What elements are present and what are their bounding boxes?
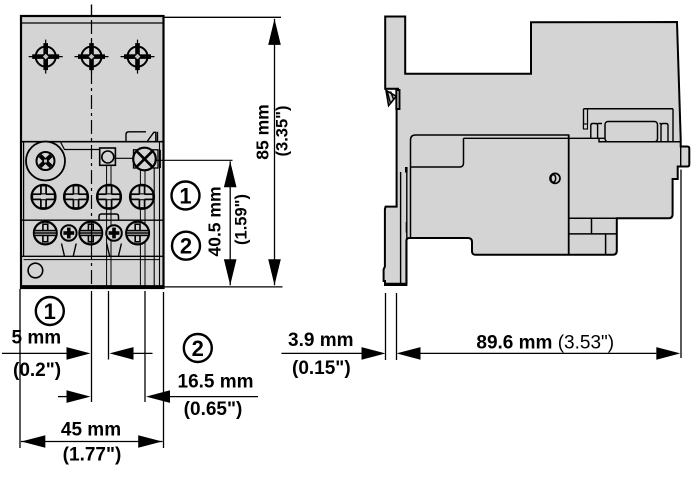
svg-text:(0.65"): (0.65") xyxy=(184,399,243,420)
front body bottom thick edge xyxy=(21,285,164,288)
extension line centerline xyxy=(91,291,93,402)
svg-text:3.9 mm: 3.9 mm xyxy=(288,330,353,351)
terminal screw row xyxy=(34,222,57,245)
svg-text:(0.2"): (0.2") xyxy=(13,360,61,381)
wire funnel 1 xyxy=(62,244,77,257)
din clip hook triangle xyxy=(386,90,396,105)
dial xyxy=(26,142,65,181)
terminal block top line xyxy=(21,219,164,221)
right block bottom seam xyxy=(569,217,617,219)
bottom-left hole xyxy=(28,263,43,278)
protrusion inner line xyxy=(680,147,682,167)
din clip slot bar xyxy=(396,90,399,109)
front block top edge xyxy=(411,135,569,238)
3.9mm dimension line xyxy=(281,352,361,354)
base plate left seam xyxy=(406,167,408,284)
tray right wall xyxy=(672,109,674,142)
svg-text:89.6 mm (3.53"): 89.6 mm (3.53") xyxy=(476,332,614,353)
extension line test button xyxy=(108,291,110,360)
din slider bar right edge xyxy=(400,172,402,283)
89.6mm dimension line xyxy=(421,352,657,354)
inner panel top line xyxy=(61,142,100,150)
circled 1 (right) xyxy=(172,182,200,210)
test-reset link line xyxy=(115,157,133,159)
front block second seam xyxy=(464,137,607,139)
din foot bottom thick edge xyxy=(384,283,406,286)
circled 2 (bottom) xyxy=(184,334,212,362)
svg-text:2: 2 xyxy=(192,336,204,361)
85mm bottom extension line xyxy=(164,286,283,288)
svg-text:1: 1 xyxy=(44,299,56,324)
side view body outline xyxy=(384,17,690,286)
reset button pad xyxy=(134,150,159,168)
svg-text:40.5 mm: 40.5 mm xyxy=(205,186,225,256)
block divider vertical xyxy=(568,135,570,255)
small latch tick xyxy=(406,222,408,233)
extension line reset button xyxy=(144,291,146,402)
svg-text:1: 1 xyxy=(179,183,191,208)
tray left wall xyxy=(583,109,585,129)
front view body xyxy=(21,16,164,288)
svg-text:5 mm: 5 mm xyxy=(12,327,62,348)
circled 1 (bottom) xyxy=(36,297,64,325)
85mm top extension line xyxy=(164,16,282,18)
svg-text:16.5 mm: 16.5 mm xyxy=(178,372,254,393)
tray dish xyxy=(598,123,661,125)
svg-text:2: 2 xyxy=(180,234,192,259)
front block step ledge xyxy=(411,138,464,167)
svg-text:45 mm: 45 mm xyxy=(61,420,121,441)
extension line din right xyxy=(396,293,398,360)
85mm dimension line xyxy=(274,19,276,285)
right block top edge xyxy=(599,138,681,142)
inner left panel line xyxy=(23,142,25,257)
top-right housing detail xyxy=(126,132,146,142)
test button slot lines xyxy=(106,165,108,286)
front top inner line xyxy=(21,22,164,24)
40.5mm top extension line xyxy=(156,159,233,161)
saddle above terminal row xyxy=(99,214,119,220)
lower section boundary xyxy=(21,141,164,143)
dial screw xyxy=(34,150,56,172)
circled 2 (right) xyxy=(172,232,200,260)
base plate step tick xyxy=(405,167,408,173)
extension line right edge xyxy=(163,292,165,448)
svg-text:(1.77"): (1.77") xyxy=(63,445,122,466)
5mm dimension line xyxy=(2,352,67,354)
terminal tray top line xyxy=(584,108,674,110)
terminal block bottom line xyxy=(21,255,164,257)
test button xyxy=(100,148,116,165)
din clip ledge xyxy=(385,88,399,90)
mounting screw 3 xyxy=(121,40,155,74)
45mm dimension line xyxy=(21,441,163,443)
centerline xyxy=(91,5,93,17)
right inner panel lines xyxy=(153,168,155,286)
centerline over middle terminal screw xyxy=(91,221,93,247)
tray post A xyxy=(591,124,598,139)
clamp screw row xyxy=(32,185,56,209)
reset button xyxy=(133,148,156,171)
svg-text:(3.35"): (3.35") xyxy=(274,106,292,157)
16.5mm dimension line xyxy=(58,396,68,398)
40.5mm dimension line xyxy=(229,161,231,285)
svg-text:(1.59"): (1.59") xyxy=(233,194,251,245)
wire funnel 2 xyxy=(107,244,122,257)
svg-text:85 mm: 85 mm xyxy=(253,104,273,159)
mounting screw 1 xyxy=(29,40,63,74)
side adjust screw xyxy=(550,173,560,183)
tray post B xyxy=(661,124,668,142)
reset slot lines xyxy=(139,171,141,287)
mounting screw 2 xyxy=(75,40,109,74)
extension line left edge xyxy=(19,289,21,448)
sub block dividers xyxy=(591,218,593,234)
extension line din left xyxy=(385,293,387,360)
extension line side right xyxy=(680,170,682,359)
svg-text:(0.15"): (0.15") xyxy=(292,358,351,379)
